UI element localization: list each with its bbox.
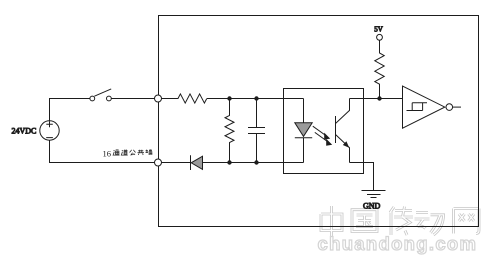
switch S1 xyxy=(90,89,111,101)
wire diode to opto xyxy=(203,162,304,164)
diode D1 xyxy=(191,155,203,170)
wire R1 to opto xyxy=(207,98,304,100)
端 xyxy=(146,149,153,155)
ground xyxy=(362,191,386,198)
label 16通道公共端 xyxy=(103,148,112,158)
junction node xyxy=(254,96,258,100)
通 xyxy=(113,150,119,155)
output wire xyxy=(453,106,461,108)
wire common node to diode xyxy=(162,162,191,164)
wire source top to switch xyxy=(50,99,91,121)
道 xyxy=(121,150,127,156)
共 xyxy=(138,150,145,155)
phototransistor Q1 xyxy=(336,99,350,163)
light arrows xyxy=(313,126,332,146)
junction node xyxy=(227,160,231,164)
wire emitter to ground xyxy=(350,163,374,191)
node terminal upper xyxy=(155,95,162,102)
junction node xyxy=(227,96,231,100)
junction node xyxy=(377,96,381,100)
svg-text:16: 16 xyxy=(103,148,112,158)
terminal 5V xyxy=(377,34,383,40)
opto LED xyxy=(295,99,312,163)
resistor R2 xyxy=(225,99,234,163)
junction node xyxy=(254,160,258,164)
wire collector to pull-up junction xyxy=(350,98,403,100)
resistor R1 xyxy=(162,94,207,103)
svg-text:GND: GND xyxy=(363,201,381,210)
optocoupler U1 box xyxy=(284,89,364,174)
公 xyxy=(130,150,136,155)
watermark 中国传动网 chuandong.com xyxy=(318,206,480,254)
resistor R3 xyxy=(375,40,384,98)
svg-text:5V: 5V xyxy=(374,26,383,34)
capacitor C1 xyxy=(248,99,265,163)
wire switch to node xyxy=(111,98,154,100)
node terminal lower xyxy=(155,159,162,166)
module box xyxy=(159,16,479,227)
wire source bottom to common node xyxy=(50,140,155,162)
voltage source V1 24VDC xyxy=(40,121,59,140)
svg-text:24VDC: 24VDC xyxy=(12,126,37,135)
svg-text:chuandong.com: chuandong.com xyxy=(318,233,478,254)
schmitt trigger U2 xyxy=(403,86,453,128)
